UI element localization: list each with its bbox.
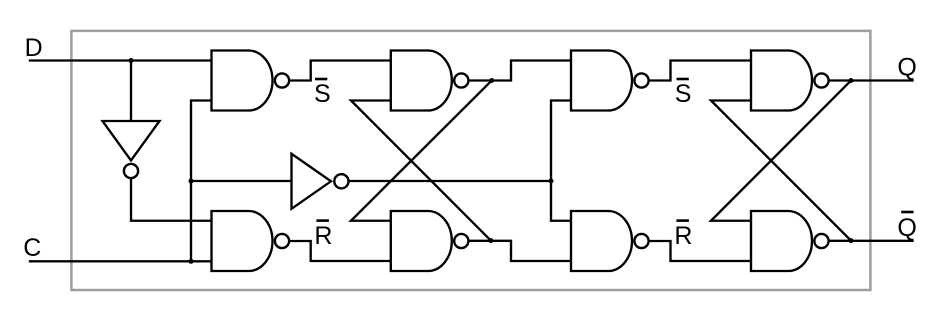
inverter U6 (inverts C), points right xyxy=(292,154,349,209)
label: slave Sbar xyxy=(675,79,692,108)
svg-text:R: R xyxy=(674,222,692,250)
nand U9 (slave latch top) xyxy=(751,51,829,111)
wire: slave cross-couple Qbar to U7 lower input xyxy=(711,101,851,241)
module boundary box xyxy=(71,31,870,290)
node: master Q junction xyxy=(489,78,494,83)
wire: Qbar output xyxy=(830,240,913,242)
svg-text:D: D xyxy=(25,34,43,62)
wire: master Q to slave gate U5 upper input xyxy=(470,61,571,81)
node: C branch to inverter U6 xyxy=(189,179,194,184)
svg-text:S: S xyxy=(314,80,331,108)
svg-text:Q: Q xyxy=(897,53,916,81)
nand U1 (S gate, inputs D and C) xyxy=(212,51,290,111)
inverter U5 (inverts D), points down xyxy=(103,121,160,178)
wire: C branch to inverter U6 input xyxy=(191,180,292,182)
wire: Cbar down to U4s upper input (slave R gate) xyxy=(551,181,571,221)
wire: master cross-couple Qbar to U3 lower input xyxy=(351,101,491,241)
nand U2 (R gate, inputs Dbar and C) xyxy=(212,211,290,271)
wire: Sbar from U1 output to master latch U3 upper input xyxy=(290,61,391,81)
wire: slave Sbar from U5 output to U7 upper input xyxy=(650,61,751,81)
label: master Sbar xyxy=(314,79,331,108)
svg-text:C: C xyxy=(23,234,41,262)
wire: D junction down to inverter U5 input xyxy=(130,61,132,122)
svg-text:S: S xyxy=(675,80,692,108)
wire: Q output xyxy=(830,79,913,81)
wire: slave Rbar from U6 output to U8 lower input xyxy=(650,241,751,261)
nand U3 (master latch top) xyxy=(391,51,469,111)
wire: C input to U2 lower input xyxy=(30,260,212,262)
wire: master Qbar to slave gate U6 lower input xyxy=(470,241,571,261)
wire: C vertical riser to U1 lower input xyxy=(191,101,212,262)
nand U8 (slave R gate) xyxy=(571,211,649,271)
wire: inverter U5 output (Dbar) down and right to U2 upper input xyxy=(131,179,212,221)
label: output Qbar xyxy=(897,212,916,242)
nand U7 (slave S gate) xyxy=(571,51,649,111)
wire: D input to U1 upper input xyxy=(30,59,212,61)
wire: Rbar from U2 output to master latch U4 lower input xyxy=(290,241,391,261)
node: master Qbar junction xyxy=(488,238,493,243)
node: D branch junction xyxy=(129,58,134,63)
wire: master cross-couple Q to U4 upper input xyxy=(351,81,492,221)
nand U10 (slave latch bottom) xyxy=(751,211,829,271)
svg-text:Q: Q xyxy=(897,214,916,242)
label: master Rbar xyxy=(314,221,332,250)
label: slave Rbar xyxy=(674,221,692,250)
node: Q output junction xyxy=(849,78,854,83)
nand U4 (master latch bottom) xyxy=(391,211,469,271)
wire: inverter U6 output Cbar line to slave stage xyxy=(349,180,551,182)
wire: Cbar up to U3s lower input (slave S gate) xyxy=(551,101,571,182)
node: Cbar branch junction xyxy=(549,179,554,184)
node: Qbar output junction xyxy=(849,238,854,243)
wire: slave cross-couple Q to U8 upper input xyxy=(711,81,851,221)
node: C junction on input wire xyxy=(189,259,194,264)
svg-text:R: R xyxy=(314,222,332,250)
